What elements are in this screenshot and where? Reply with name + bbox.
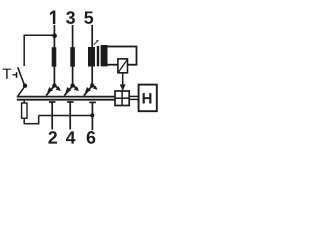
- wire test branch horizontal: [24, 34, 55, 36]
- bridge bar pole2: [49, 101, 56, 103]
- contact pole5 lever arrowhead: [85, 87, 91, 92]
- linkage bar bottom line: [17, 99, 115, 101]
- contact pole3 trip arrowhead: [74, 86, 79, 91]
- contact pole5 dot: [90, 83, 94, 87]
- label terminal 1: [50, 11, 55, 24]
- winding W4 toroid core bar: [97, 46, 99, 66]
- bridge bar pole4: [67, 101, 74, 103]
- test linkage diagonal: [17, 87, 24, 97]
- wire resistor top lead: [23, 99, 25, 103]
- wire pole5 top: [91, 25, 93, 48]
- contact pole1 dot: [52, 83, 56, 87]
- wire terminal 2: [51, 102, 53, 130]
- mechanism cross horizontal: [115, 97, 129, 99]
- contact pole3 trip arrow: [73, 85, 78, 89]
- test switch lever: [18, 67, 25, 85]
- trip coil diagonal: [118, 60, 127, 73]
- wire resistor bottom lead: [23, 118, 25, 124]
- test button rod: [13, 74, 17, 76]
- contact pole3 dot: [70, 83, 74, 87]
- test button actuator plate: [16, 72, 18, 78]
- trip coil square: [118, 59, 128, 73]
- winding W1 pole1: [52, 47, 57, 66]
- contact pole5 trip arrow: [93, 85, 97, 88]
- node test return on line 6: [90, 113, 94, 117]
- winding W2 pole3: [70, 47, 75, 66]
- node junction on line 1: [52, 33, 57, 38]
- wire test return lower: [24, 123, 39, 125]
- contact pole1 trip arrowhead: [56, 86, 61, 91]
- contact pole5 lever: [84, 86, 92, 96]
- wire test return horizontal: [39, 115, 93, 117]
- label T test button: [3, 69, 11, 79]
- wire terminal 6: [91, 102, 93, 130]
- wire pole3 mid: [72, 67, 74, 85]
- wire pole5 mid: [91, 67, 93, 85]
- label terminal 6: [87, 131, 96, 144]
- contact pole3 lever arrowhead: [65, 87, 71, 92]
- linkage stub to handle bottom: [129, 98, 138, 100]
- linkage stub to handle top: [129, 95, 138, 97]
- node test switch pivot: [23, 84, 27, 88]
- handle box H: [139, 85, 157, 112]
- trip arrowhead: [120, 84, 126, 90]
- wire pole3 top: [72, 25, 74, 48]
- label terminal 2: [48, 131, 57, 143]
- wire pole1 mid: [53, 67, 55, 85]
- resistor R test: [22, 103, 27, 118]
- bridge bar pole6: [89, 101, 96, 103]
- linkage bar top line: [17, 96, 115, 98]
- contact pole3 lever: [64, 86, 72, 96]
- wire trip to linkage: [122, 73, 124, 90]
- wire pole1 top: [53, 25, 55, 48]
- contact pole1 trip arrow: [55, 85, 60, 89]
- label terminal 4: [66, 131, 76, 143]
- relay box outline: [102, 47, 137, 65]
- wire terminal 4: [69, 102, 71, 130]
- relay box fill band: [101, 45, 108, 66]
- contact pole5 trip arrowhead: [93, 86, 98, 90]
- wire test branch vertical: [23, 35, 25, 67]
- contact pole1 lever: [46, 86, 54, 96]
- mechanism cross vertical: [121, 91, 123, 106]
- label terminal 3: [66, 11, 75, 24]
- contact pole1 lever arrowhead: [47, 87, 53, 92]
- secondary winding arrow: [94, 40, 99, 45]
- label terminal 5: [84, 11, 93, 23]
- label H: [143, 93, 152, 103]
- mechanism crossed box: [115, 91, 129, 106]
- winding W3 pole5: [88, 47, 95, 67]
- wire test return riser: [38, 116, 40, 125]
